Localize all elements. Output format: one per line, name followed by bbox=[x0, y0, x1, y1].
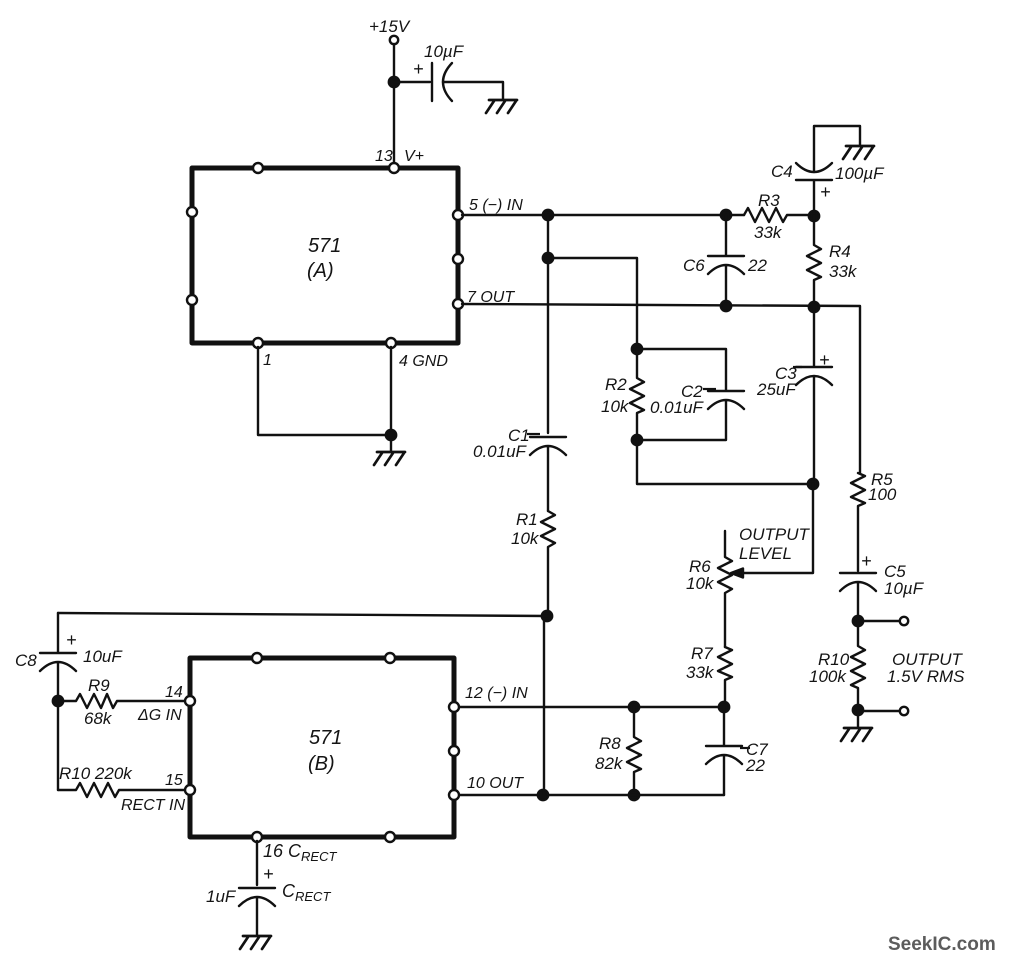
ground (supply bypass) bbox=[486, 100, 517, 113]
wire to output terminal upper bbox=[858, 620, 899, 622]
svg-text:+: + bbox=[819, 350, 830, 370]
svg-text:68k: 68k bbox=[84, 709, 113, 728]
svg-text:10k: 10k bbox=[511, 529, 540, 548]
svg-text:82k: 82k bbox=[595, 754, 624, 773]
svg-text:R8: R8 bbox=[599, 734, 621, 753]
resistor R4 33k bbox=[807, 216, 821, 307]
svg-text:10µF: 10µF bbox=[424, 42, 465, 61]
resistor R10 100k (output) bbox=[851, 621, 865, 710]
svg-text:R2: R2 bbox=[605, 375, 627, 394]
svg-text:RECT IN: RECT IN bbox=[121, 797, 185, 814]
svg-text:+15V: +15V bbox=[369, 17, 411, 36]
label C3 value 25uF bbox=[793, 366, 802, 368]
svg-text:100: 100 bbox=[868, 485, 897, 504]
node C8 / R9 junction bbox=[53, 696, 63, 706]
ground (CRECT) bbox=[240, 936, 271, 949]
svg-text:R1: R1 bbox=[516, 510, 538, 529]
wire bypass capacitor to ground bbox=[443, 82, 503, 100]
ground (output) bbox=[841, 728, 872, 741]
node R3/R4/C4 junction bbox=[809, 211, 819, 221]
node OUT / R4 / C3 junction bbox=[809, 302, 819, 312]
svg-text:33k: 33k bbox=[754, 223, 783, 242]
svg-text:0.01uF: 0.01uF bbox=[650, 398, 705, 417]
svg-text:10µF: 10µF bbox=[884, 579, 925, 598]
node R1 bottom junction bbox=[542, 611, 552, 621]
node R2 top junction bbox=[632, 344, 642, 354]
unnumbered pin (box A left upper) bbox=[187, 207, 197, 217]
svg-text:13: 13 bbox=[375, 148, 393, 165]
svg-text:10uF: 10uF bbox=[83, 647, 123, 666]
node 10OUT / feedback column junction bbox=[538, 790, 548, 800]
wire C8 rail to R1 node bbox=[58, 613, 548, 616]
svg-text:1.5V RMS: 1.5V RMS bbox=[887, 667, 965, 686]
node pin 4 ground junction bbox=[386, 430, 396, 440]
resistor R5 100 bbox=[851, 473, 865, 571]
svg-text:(B): (B) bbox=[308, 753, 335, 775]
svg-text:+: + bbox=[263, 864, 274, 884]
op-amp U1 571(A) body bbox=[192, 168, 458, 343]
capacitor C3 25uF bbox=[796, 307, 832, 484]
svg-text:0.01uF: 0.01uF bbox=[473, 442, 528, 461]
node C5 / R10 junction bbox=[853, 616, 863, 626]
unnumbered pin (box A top-left) bbox=[253, 163, 263, 173]
svg-text:C6: C6 bbox=[683, 256, 705, 275]
wire +15V to pin 13 V+ bbox=[393, 44, 395, 168]
capacitor C5 10uF bbox=[840, 573, 876, 621]
wire R2 bottom to C3 node bbox=[637, 440, 813, 484]
svg-text:33k: 33k bbox=[686, 663, 715, 682]
unnumbered pin (box B top-left) bbox=[252, 653, 262, 663]
svg-text:33k: 33k bbox=[829, 262, 858, 281]
pin 1 (box A bottom) bbox=[253, 338, 263, 348]
capacitor 10uF supply bypass bbox=[432, 63, 452, 101]
wire pin 16 to Crect bbox=[256, 841, 258, 885]
node junction V+ rail bbox=[389, 77, 399, 87]
resistor R10 220k (rect in) bbox=[58, 783, 190, 797]
wire R10 bottom to ground bbox=[857, 711, 859, 728]
svg-text:571: 571 bbox=[309, 727, 342, 749]
resistor R8 82k bbox=[627, 707, 641, 795]
svg-text:R9: R9 bbox=[88, 676, 110, 695]
wire net 10 OUT from pin 10 to C7 bbox=[460, 794, 724, 796]
unnumbered pin (box A left lower) bbox=[187, 295, 197, 305]
svg-text:R7: R7 bbox=[691, 644, 713, 663]
svg-text:C4: C4 bbox=[771, 162, 793, 181]
capacitor C2 0.01uF in parallel with R2 bbox=[637, 349, 744, 440]
svg-text:10k: 10k bbox=[686, 574, 715, 593]
wire C3 node down to R6 wiper bbox=[739, 484, 813, 573]
svg-text:+: + bbox=[820, 182, 831, 202]
pin 16 CRECT (box B bottom) bbox=[252, 832, 262, 842]
pin 15 RECT IN (box B left) bbox=[185, 785, 195, 795]
pin 7 OUT (box A right) bbox=[453, 299, 463, 309]
pin 10 OUT (box B right) bbox=[449, 790, 459, 800]
svg-text:V+: V+ bbox=[404, 148, 424, 165]
svg-text:4 GND: 4 GND bbox=[399, 353, 448, 370]
resistor R7 33k bbox=[718, 647, 732, 707]
wire to output terminal lower bbox=[858, 710, 899, 712]
unnumbered pin (box A right middle) bbox=[453, 254, 463, 264]
svg-text:CRECT: CRECT bbox=[282, 881, 331, 904]
ground (C4) bbox=[843, 146, 874, 159]
ground (box A pin 4) bbox=[374, 452, 405, 465]
wire net 12(-)IN from pin 12 bbox=[460, 706, 724, 708]
svg-text:C8: C8 bbox=[15, 651, 37, 670]
svg-text:LEVEL: LEVEL bbox=[739, 544, 792, 563]
wire net 5(-)IN from pin 5 to R3 bbox=[462, 214, 744, 216]
wire pin 1 and pin 4 to ground bbox=[258, 347, 391, 452]
resistor R9 68k bbox=[58, 694, 190, 708]
node 5IN / C1 column junction bbox=[543, 210, 553, 220]
wire 5IN node down C1 column bbox=[547, 215, 549, 433]
svg-text:R3: R3 bbox=[758, 191, 780, 210]
capacitor CRECT 1uF bbox=[239, 888, 275, 935]
node R10 bottom junction bbox=[853, 705, 863, 715]
capacitor C1 0.01uF bbox=[530, 437, 566, 511]
capacitor C8 10uF bbox=[40, 613, 76, 790]
svg-text:SeekIC.com: SeekIC.com bbox=[888, 934, 996, 955]
svg-text:571: 571 bbox=[308, 235, 341, 257]
label C7 value 22 bbox=[740, 747, 750, 749]
node R7 / C7 / 12IN junction bbox=[719, 702, 729, 712]
wire feedback column R1 node to 10OUT bbox=[543, 616, 545, 795]
wire V+ node to bypass capacitor bbox=[394, 81, 430, 83]
svg-text:+: + bbox=[413, 59, 424, 79]
unnumbered pin (box B right middle) bbox=[449, 746, 459, 756]
wiper arrow of R6 bbox=[731, 569, 743, 578]
svg-text:25uF: 25uF bbox=[756, 380, 797, 399]
svg-text:16 CRECT: 16 CRECT bbox=[263, 841, 337, 864]
svg-text:5 (−) IN: 5 (−) IN bbox=[469, 197, 523, 214]
pin 12 (-) IN (box B right) bbox=[449, 702, 459, 712]
svg-text:100k: 100k bbox=[809, 667, 847, 686]
svg-text:22: 22 bbox=[745, 756, 765, 775]
label C2 value 0.01uF bbox=[703, 388, 716, 390]
capacitor C7 22 bbox=[706, 707, 742, 795]
unnumbered pin (box B top-right) bbox=[385, 653, 395, 663]
svg-text:100µF: 100µF bbox=[835, 164, 885, 183]
svg-text:1uF: 1uF bbox=[206, 887, 237, 906]
pin 4 GND (box A bottom) bbox=[386, 338, 396, 348]
svg-text:10 OUT: 10 OUT bbox=[467, 775, 524, 792]
node R8 bottom junction bbox=[629, 790, 639, 800]
capacitor C6 22 bbox=[708, 215, 744, 306]
svg-text:+: + bbox=[861, 551, 872, 571]
label C1 value 0.01uF bbox=[527, 433, 540, 435]
node output terminal lower bbox=[900, 707, 908, 715]
svg-text:14: 14 bbox=[165, 684, 183, 701]
wire branch to R2 column bbox=[548, 258, 637, 349]
node 5IN / C6 junction bbox=[721, 210, 731, 220]
svg-text:ΔG IN: ΔG IN bbox=[137, 707, 182, 724]
pin 14 dG IN (box B left) bbox=[185, 696, 195, 706]
node OUT / C6 junction bbox=[721, 301, 731, 311]
node +15V supply terminal bbox=[390, 36, 398, 44]
node branch junction bbox=[543, 253, 553, 263]
svg-text:10k: 10k bbox=[601, 397, 630, 416]
wire C4 to ground bbox=[814, 126, 860, 172]
svg-text:OUTPUT: OUTPUT bbox=[739, 525, 811, 544]
resistor R2 10k bbox=[630, 349, 644, 440]
capacitor C4 100uF bbox=[796, 163, 832, 216]
node output terminal upper bbox=[900, 617, 908, 625]
svg-text:(A): (A) bbox=[307, 260, 334, 282]
pin 13 V+ (box A top) bbox=[389, 163, 399, 173]
resistor R1 10k bbox=[541, 511, 555, 616]
pin 5 (-) IN (box A right) bbox=[453, 210, 463, 220]
svg-text:R10 220k: R10 220k bbox=[59, 764, 133, 783]
node 12IN / R8 junction bbox=[629, 702, 639, 712]
node R2 bottom junction bbox=[632, 435, 642, 445]
svg-text:+: + bbox=[66, 630, 77, 650]
unnumbered pin (box B bottom-right) bbox=[385, 832, 395, 842]
svg-text:7 OUT: 7 OUT bbox=[467, 289, 515, 306]
svg-text:15: 15 bbox=[165, 772, 183, 789]
potentiometer R6 10k bbox=[718, 531, 732, 647]
resistor R3 33k bbox=[744, 208, 814, 222]
node C3 bottom junction bbox=[808, 479, 818, 489]
svg-text:22: 22 bbox=[747, 256, 767, 275]
svg-text:1: 1 bbox=[263, 352, 272, 369]
svg-text:12 (−) IN: 12 (−) IN bbox=[465, 685, 528, 702]
svg-text:R4: R4 bbox=[829, 242, 851, 261]
op-amp U2 571(B) body bbox=[190, 658, 454, 837]
wire net 7 OUT from pin 7 to R5 column bbox=[462, 304, 860, 473]
